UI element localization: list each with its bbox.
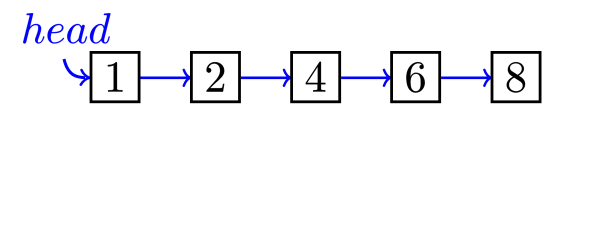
- node box 1: [91, 52, 139, 101]
- arrowhead 6-8: [484, 70, 490, 86]
- wire arrow 2-4: [241, 77, 289, 80]
- wire arrow 4-6: [341, 77, 388, 80]
- value 6: [406, 62, 424, 92]
- value 4: [306, 62, 326, 92]
- value 8: [507, 62, 525, 92]
- wire arrow 1-2: [141, 77, 189, 80]
- node box 4: [292, 52, 340, 101]
- arrowhead 4-6: [384, 70, 390, 86]
- node box 6: [392, 52, 440, 101]
- wire head-pointer curve: [64, 59, 85, 78]
- value 2: [207, 62, 225, 91]
- wire arrow 6-8: [441, 77, 489, 80]
- node box 8: [492, 52, 540, 101]
- head-pointer arrowhead: [81, 70, 90, 85]
- arrowhead 1-2: [184, 70, 190, 86]
- arrowhead 2-4: [284, 70, 290, 86]
- node head label: [23, 13, 110, 43]
- value 1: [108, 62, 123, 91]
- node box 2: [191, 52, 239, 101]
